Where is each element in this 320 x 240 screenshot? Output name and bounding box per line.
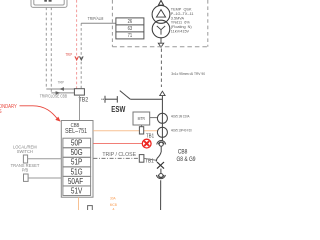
breaker contact X (157, 162, 164, 169)
terminal TB1 (trip/close) (139, 155, 144, 163)
terminal TB1 (metering) (141, 125, 143, 127)
wire: 415V bus (161, 96, 163, 141)
wire meter to CT (150, 117, 158, 119)
wire pushbutton to relay (28, 177, 61, 179)
svg-text:SWITCH: SWITCH (17, 149, 33, 154)
wire red lamp circuit (93, 142, 142, 144)
svg-text:TB2: TB2 (79, 96, 89, 104)
wire switch to relay (28, 158, 62, 160)
svg-text:63: 63 (128, 26, 133, 32)
wire TB2 to CBB relay (79, 95, 81, 120)
svg-text:SEL–751: SEL–751 (65, 127, 88, 135)
wire to breaker mechanism (144, 158, 156, 160)
terminal square bottom (88, 206, 93, 212)
wire: horizontal trip/close line into TB2 (51, 92, 74, 94)
svg-text:MTR: MTR (138, 117, 145, 121)
breaker blade (156, 152, 161, 162)
CT protection (157, 127, 167, 137)
circuit breaker CB8 drawout top contact (156, 141, 165, 162)
svg-text:ESW: ESW (111, 104, 126, 114)
svg-text:TEMP QSK: TEMP QSK (171, 8, 192, 12)
wire: horizontal trip line into TB2 (46, 88, 74, 90)
svg-text:3x1c 95mm² Al TRV 90: 3x1c 95mm² Al TRV 90 (171, 72, 205, 76)
svg-text:50AF: 50AF (68, 176, 84, 186)
indicator lamp (red) (142, 139, 151, 148)
svg-text:71: 71 (128, 33, 133, 39)
svg-text:30A: 30A (110, 196, 116, 200)
wire: gray dashed trip/alm line (80, 23, 82, 88)
terminal block TB2 (74, 89, 84, 95)
wire bus to outgoing (160, 180, 162, 210)
svg-text:TRIP/ALM: TRIP/ALM (88, 16, 104, 22)
meter MTR (133, 112, 150, 125)
arrow into switchboard (160, 91, 165, 95)
label orange note (110, 196, 118, 212)
svg-text:3.5MVA: 3.5MVA (171, 16, 185, 20)
earth switch (101, 91, 162, 103)
svg-text:ONDARY: ONDARY (0, 103, 18, 110)
svg-text:(Floating N): (Floating N) (171, 25, 193, 29)
wire orange from relay bottom (78, 197, 80, 210)
svg-text:G8 & G9: G8 & G9 (176, 157, 195, 164)
wire: dashed control line B from relay box (50, 7, 52, 93)
svg-text:TRIP/CLOSE CBB: TRIP/CLOSE CBB (40, 93, 68, 99)
drawout bottom contact (156, 169, 165, 210)
wire: dashed control line A from relay box (45, 7, 47, 89)
svg-text:TRIP / CLOSE: TRIP / CLOSE (102, 152, 136, 158)
svg-text:50P: 50P (71, 138, 82, 148)
svg-text:11kV/415V: 11kV/415V (171, 30, 190, 34)
dashed boundary (supply authority) (112, 0, 207, 47)
svg-text:P/B: P/B (22, 167, 29, 172)
wire orange CT circuit to relay (93, 130, 158, 132)
svg-text:400/5 1M 15VA: 400/5 1M 15VA (171, 114, 190, 118)
relay box top-left (cut off at top) (31, 0, 67, 7)
svg-text:400/5 10P40 F20: 400/5 10P40 F20 (171, 128, 192, 132)
svg-text:P–1G–TX–11: P–1G–TX–11 (171, 12, 194, 16)
protection relay CBB SEL-751 (61, 121, 93, 198)
arrow gray V (80, 56, 84, 60)
svg-text:TRIP: TRIP (58, 80, 64, 84)
CT metering (157, 113, 167, 123)
svg-text:26: 26 (128, 19, 133, 25)
svg-text:CB8: CB8 (178, 149, 188, 156)
arrow red V (75, 56, 79, 60)
svg-text:TRIP: TRIP (66, 53, 73, 58)
transformer T1 (152, 0, 170, 47)
wire: red dashed trip line (76, 0, 78, 89)
wire: TRIP/ALM horizontal (81, 22, 116, 24)
svg-text:51V: 51V (71, 186, 82, 196)
svg-text:TB1: TB1 (146, 133, 154, 139)
wire trip/close dash-dot (93, 157, 139, 159)
wire: dashed 11kV cable (160, 49, 162, 88)
label transformer data (171, 8, 194, 34)
svg-text:51P: 51P (71, 157, 82, 167)
relay outputs box 26/63/71 (116, 18, 144, 39)
svg-text:S: S (0, 108, 2, 115)
svg-text:YNd11 6%: YNd11 6% (171, 21, 191, 25)
